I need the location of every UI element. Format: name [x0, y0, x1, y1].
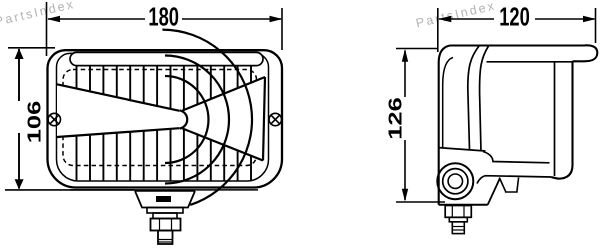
- svg-text:126: 126: [385, 97, 406, 140]
- svg-text:180: 180: [148, 2, 179, 31]
- svg-text:106: 106: [24, 101, 45, 144]
- svg-text:120: 120: [499, 3, 530, 32]
